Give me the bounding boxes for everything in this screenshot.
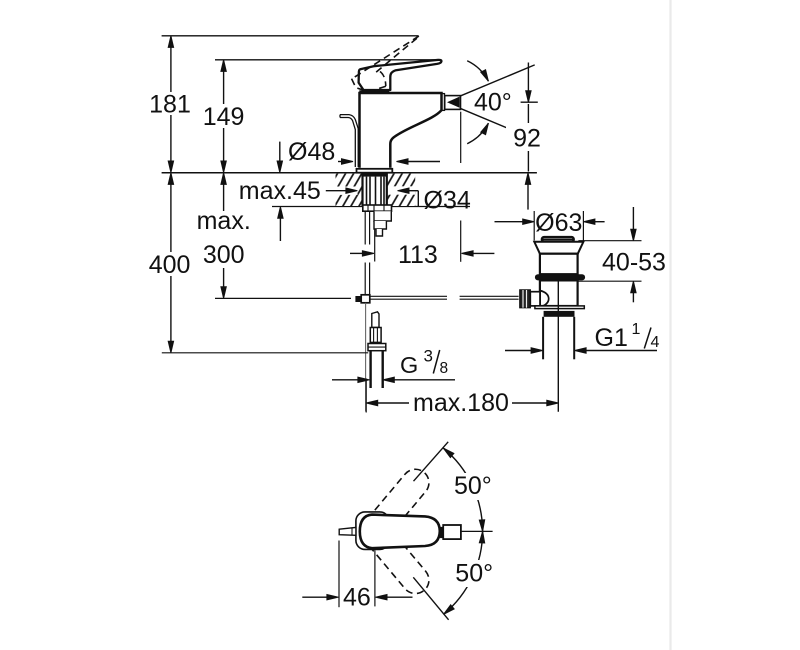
drain valve cap bbox=[542, 237, 574, 241]
svg-text:300: 300 bbox=[203, 241, 245, 269]
50° upper diagonal bbox=[414, 442, 449, 481]
dimension max.180 bbox=[365, 379, 367, 413]
counter bottom line bbox=[272, 206, 470, 208]
40° vertex arrow bbox=[447, 97, 460, 108]
faint page divider line bbox=[669, 0, 671, 650]
extension line (149 level) bbox=[215, 59, 440, 61]
rod knob (top view) bbox=[339, 527, 356, 535]
shank washer bbox=[363, 205, 392, 211]
dimension 113 bbox=[374, 229, 376, 262]
spout extension line bbox=[460, 112, 462, 163]
lever (top view) bbox=[360, 515, 440, 549]
dimension G3/8 bbox=[332, 379, 359, 381]
svg-text:G1: G1 bbox=[595, 324, 628, 352]
pop-up rod handle bbox=[340, 115, 358, 167]
svg-text:G: G bbox=[400, 352, 418, 378]
linkage rod to drain bbox=[370, 296, 518, 299]
svg-text:149: 149 bbox=[203, 103, 245, 131]
svg-text:max.180: max.180 bbox=[413, 389, 509, 417]
dimension 46 bbox=[338, 541, 340, 608]
svg-text:Ø48: Ø48 bbox=[288, 138, 335, 166]
countertop hatching left bbox=[336, 174, 363, 206]
svg-text:Ø34: Ø34 bbox=[424, 186, 471, 214]
shank steps bbox=[374, 211, 391, 221]
faucet handle bbox=[359, 60, 442, 90]
supply stud G3/8 bbox=[372, 312, 379, 328]
dimension 40° bbox=[460, 65, 535, 96]
dimension 40-53 bbox=[578, 240, 641, 242]
rod coupler bbox=[355, 296, 360, 302]
svg-text:46: 46 bbox=[343, 583, 371, 611]
dimension 400 bbox=[170, 174, 172, 352]
outer casing (top view) bbox=[356, 512, 389, 550]
countertop hatching right bbox=[388, 174, 416, 206]
spout stub (top view) bbox=[443, 525, 461, 539]
hatch corridor white bbox=[388, 186, 416, 194]
dimension Ø63 bbox=[533, 211, 535, 241]
svg-text:40-53: 40-53 bbox=[602, 249, 666, 277]
drain tailpipe bbox=[542, 317, 544, 360]
svg-text:92: 92 bbox=[513, 124, 541, 152]
faucet base plate bbox=[357, 169, 393, 173]
actuator connector bbox=[530, 292, 540, 306]
drain valve flange bbox=[534, 242, 583, 254]
dimension G1 1/4 bbox=[505, 350, 532, 352]
svg-text:50°: 50° bbox=[455, 559, 493, 587]
mounting surface line bbox=[162, 172, 537, 174]
axis connector to spout stub bbox=[440, 527, 443, 538]
drain rod bbox=[557, 281, 559, 412]
drain valve body lower bbox=[540, 280, 578, 306]
50° text upper bbox=[449, 473, 499, 500]
axis line bbox=[461, 530, 493, 532]
50° lower diagonal bbox=[413, 577, 448, 620]
actuator bump bbox=[540, 291, 549, 308]
svg-text:181: 181 bbox=[149, 91, 191, 119]
dimension Ø34 leader bbox=[398, 188, 410, 193]
drain flange lower bbox=[535, 306, 584, 309]
svg-text:40°: 40° bbox=[474, 89, 512, 117]
handle raised (dashed) bbox=[351, 36, 419, 92]
svg-text:Ø63: Ø63 bbox=[535, 209, 582, 237]
reference line max300 level bbox=[215, 297, 351, 299]
handle raised up 50° (dashed) bbox=[359, 464, 435, 547]
svg-text:400: 400 bbox=[149, 251, 191, 279]
svg-text:4: 4 bbox=[651, 334, 660, 351]
spout nozzle bbox=[442, 94, 444, 111]
svg-text:3: 3 bbox=[424, 347, 433, 366]
handle dark band bbox=[359, 90, 389, 92]
50° lower arc bbox=[444, 531, 483, 614]
reference line 400 level bbox=[162, 352, 368, 354]
handle down 50° (dashed) bbox=[359, 516, 435, 599]
locknut band bbox=[544, 311, 575, 317]
50° upper arc bbox=[443, 448, 482, 531]
svg-text:8: 8 bbox=[440, 360, 449, 377]
svg-text:1: 1 bbox=[632, 321, 641, 338]
dimension 92 bbox=[521, 101, 538, 103]
svg-text:113: 113 bbox=[398, 241, 438, 269]
shank below counter bbox=[363, 173, 387, 206]
50° text lower bbox=[450, 560, 500, 587]
svg-text:50°: 50° bbox=[454, 472, 492, 500]
svg-text:max.: max. bbox=[197, 207, 251, 235]
extension line top (181 level) bbox=[162, 35, 419, 37]
dimension 149 bbox=[223, 61, 225, 171]
pop-up rod below counter bbox=[365, 211, 369, 294]
o-ring bbox=[535, 274, 585, 280]
dimension 181 bbox=[170, 37, 172, 171]
faucet body bbox=[360, 93, 442, 168]
drain valve body upper bbox=[540, 254, 578, 275]
actuator knob bbox=[520, 290, 531, 308]
dimension max.300 bbox=[223, 174, 225, 297]
svg-text:max.45: max.45 bbox=[239, 177, 321, 205]
